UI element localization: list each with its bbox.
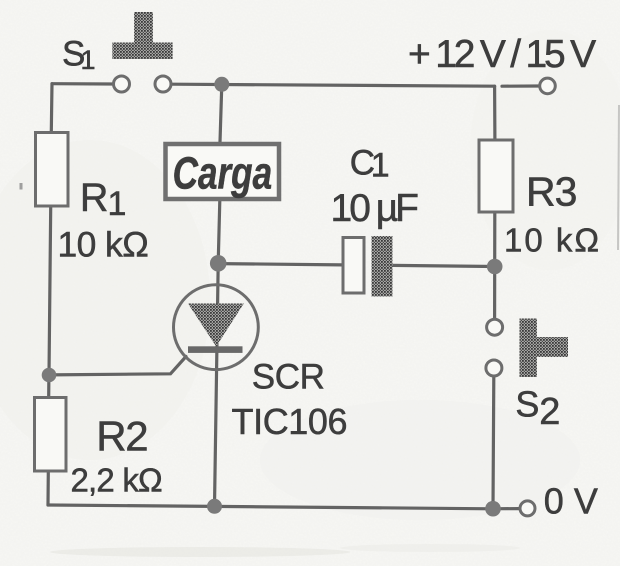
svg-text:Carga: Carga xyxy=(173,147,272,198)
svg-text:1: 1 xyxy=(371,147,390,185)
svg-text:R2: R2 xyxy=(96,413,147,460)
svg-text:TIC106: TIC106 xyxy=(232,401,348,442)
svg-text:R: R xyxy=(80,176,109,220)
svg-text:R3: R3 xyxy=(526,168,576,214)
svg-text:2: 2 xyxy=(539,391,560,433)
svg-text:+ 12 V / 15 V: + 12 V / 15 V xyxy=(408,33,596,76)
svg-text:0 V: 0 V xyxy=(544,481,598,522)
svg-text:SCR: SCR xyxy=(252,358,325,397)
svg-text:1: 1 xyxy=(108,185,127,223)
svg-text:10 µF: 10 µF xyxy=(331,187,419,230)
svg-text:10 kΩ: 10 kΩ xyxy=(504,222,601,259)
svg-text:10 kΩ: 10 kΩ xyxy=(58,225,149,265)
svg-text:S: S xyxy=(515,384,539,425)
svg-text:2,2 kΩ: 2,2 kΩ xyxy=(71,462,163,499)
svg-text:1: 1 xyxy=(81,45,96,75)
